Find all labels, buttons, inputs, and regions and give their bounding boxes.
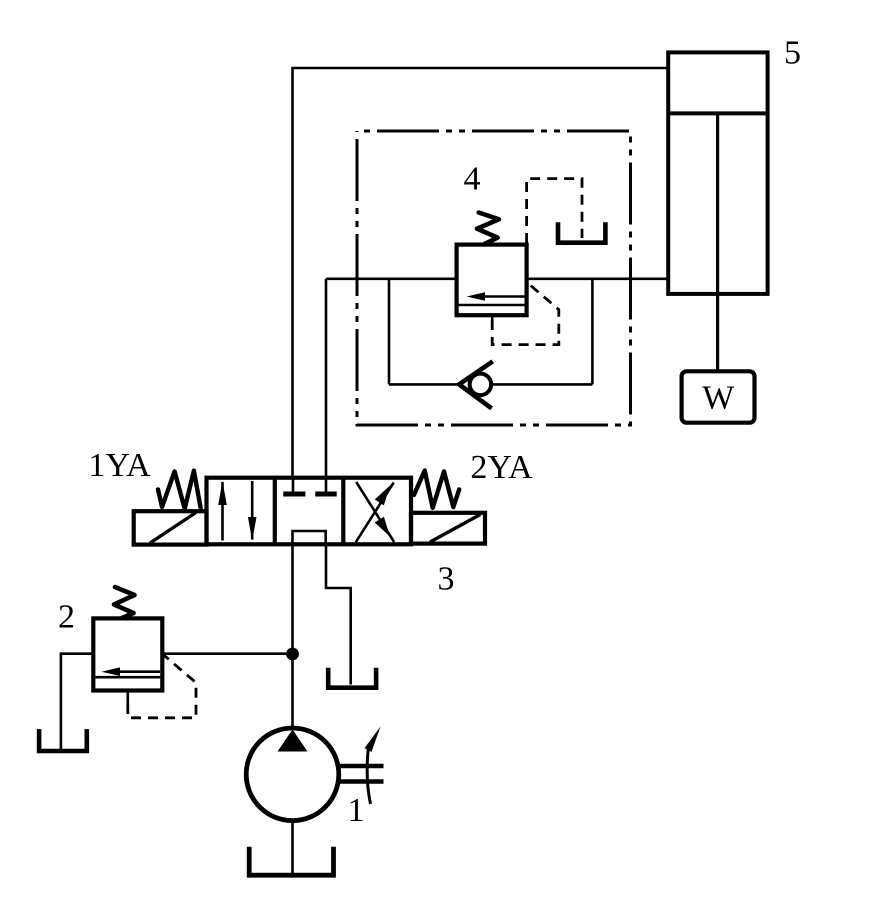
tank: pump suction tank (249, 847, 333, 875)
node: junction dot on pump line (286, 648, 299, 661)
valve 3: center blocked port A (292, 478, 295, 492)
svg-text:2YA: 2YA (470, 449, 533, 486)
enclosure: dash-dot machine boundary around valve 4 (357, 131, 631, 425)
svg-text:3: 3 (438, 560, 455, 597)
wire P: pump up to valve 3 port P (291, 544, 294, 728)
pump 1: circle (246, 728, 339, 821)
pump 1: variable displacement arrow (367, 749, 370, 804)
load W box (682, 371, 755, 422)
relief valve 2: inner lower line (95, 676, 160, 679)
wire T: valve 3 port T down to tank (326, 544, 351, 684)
valve 3: center blocked port B (325, 478, 328, 492)
svg-text:1YA: 1YA (88, 447, 151, 484)
relief valve 2 body (93, 618, 162, 690)
wire: bypass bottom right segment from check valve (491, 383, 592, 386)
valve 3: divider right (341, 478, 345, 545)
valve 4: pilot stub (491, 315, 494, 320)
relief valve 2: flow arrow (108, 670, 160, 673)
tank: middle tank for valve 3 T port (328, 668, 376, 688)
valve 4: spring chamber drain dashed line (527, 179, 582, 243)
relief valve 2: pilot dashed loop (128, 655, 196, 718)
solenoid 2YA box (411, 513, 485, 544)
svg-text:5: 5 (784, 35, 801, 72)
pump 1: side port lines (338, 764, 384, 768)
valve 4: flow arrow (473, 295, 525, 298)
pump 1: outlet triangle (278, 730, 308, 752)
valve 4: inner lower line (459, 304, 525, 307)
valve 3: divider left (273, 478, 277, 545)
wire: relief valve 2 inlet to left tank (61, 654, 93, 750)
valve 4: spring (477, 213, 499, 245)
tank: valve 4 drain tank (558, 222, 605, 242)
valve 4: pilot dashed loop (492, 284, 559, 344)
wire: bypass bottom left segment to check valve (389, 383, 460, 386)
valve 3: right position crossed arrow 1 (356, 482, 394, 542)
relief valve 2: pilot stub (127, 691, 130, 705)
valve 3: center P-T channel (293, 531, 326, 545)
valve 3: directional valve body (207, 478, 412, 545)
wire: bypass right rise to main line (591, 279, 594, 385)
cylinder 5: piston (668, 111, 767, 115)
check valve: bypass around valve 4 (470, 374, 492, 396)
wire: relief valve 2 outlet to junction (162, 652, 292, 655)
svg-text:2: 2 (58, 599, 75, 636)
valve 4: counterbalance valve body (457, 245, 527, 316)
wire B: valve 3 port B riser up to main line (325, 279, 328, 478)
svg-text:W: W (702, 380, 735, 417)
valve 3: left position down arrow (251, 481, 254, 540)
svg-text:4: 4 (464, 161, 481, 198)
wire A: valve 3 port A up and across to cylinder top port (293, 68, 669, 478)
valve 3: left position up arrow (221, 482, 224, 541)
wire: valve 4 outlet to cylinder bottom port (527, 277, 669, 280)
svg-text:1: 1 (348, 792, 365, 829)
solenoid 1YA box (134, 511, 207, 544)
wire: pump suction to tank (291, 821, 294, 875)
cylinder 5: barrel (668, 52, 767, 294)
spring left (1YA side) (158, 471, 201, 509)
wire: main line from B riser to valve 4 inlet (326, 277, 457, 280)
cylinder 5: piston rod (716, 113, 719, 371)
relief valve 2: spring (114, 587, 135, 618)
spring right (2YA side) (414, 471, 459, 508)
tank: left tank for relief valve (39, 729, 87, 751)
valve 3: right position crossed arrow 2 (356, 483, 394, 543)
wire: bypass left drop (388, 279, 391, 385)
